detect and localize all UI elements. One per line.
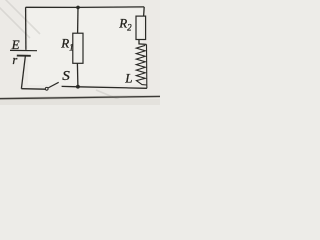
svg-text:E: E bbox=[11, 37, 20, 52]
wire right upper bbox=[143, 7, 146, 16]
wire left upper bbox=[25, 7, 27, 50]
wire middle branch upper bbox=[77, 7, 79, 33]
svg-text:r: r bbox=[12, 53, 17, 67]
svg-text:S: S bbox=[62, 69, 70, 84]
svg-text:L: L bbox=[124, 71, 132, 86]
inductor L straight core wire bbox=[146, 44, 148, 88]
node top junction bbox=[76, 6, 80, 10]
wire middle branch lower bbox=[76, 63, 79, 86]
wire left lower bbox=[21, 56, 25, 88]
wire bottom left bbox=[21, 88, 45, 91]
scan line artifact bottom bbox=[0, 96, 160, 98]
switch S blade bbox=[48, 82, 59, 88]
resistor R1 bbox=[73, 33, 83, 63]
wire below R2 jog bbox=[139, 40, 146, 45]
inductor L zigzag coil bbox=[136, 45, 147, 85]
wire top bbox=[26, 6, 145, 9]
wire bottom right bbox=[62, 86, 147, 88]
scan line artifact bottom halo bbox=[0, 96, 160, 98]
battery r short plate bbox=[17, 55, 31, 57]
switch pivot circle bbox=[45, 87, 48, 90]
node bottom junction bbox=[76, 85, 80, 89]
battery E long plate bbox=[10, 49, 37, 51]
paper background bbox=[0, 0, 160, 105]
resistor R2 bbox=[136, 16, 146, 39]
